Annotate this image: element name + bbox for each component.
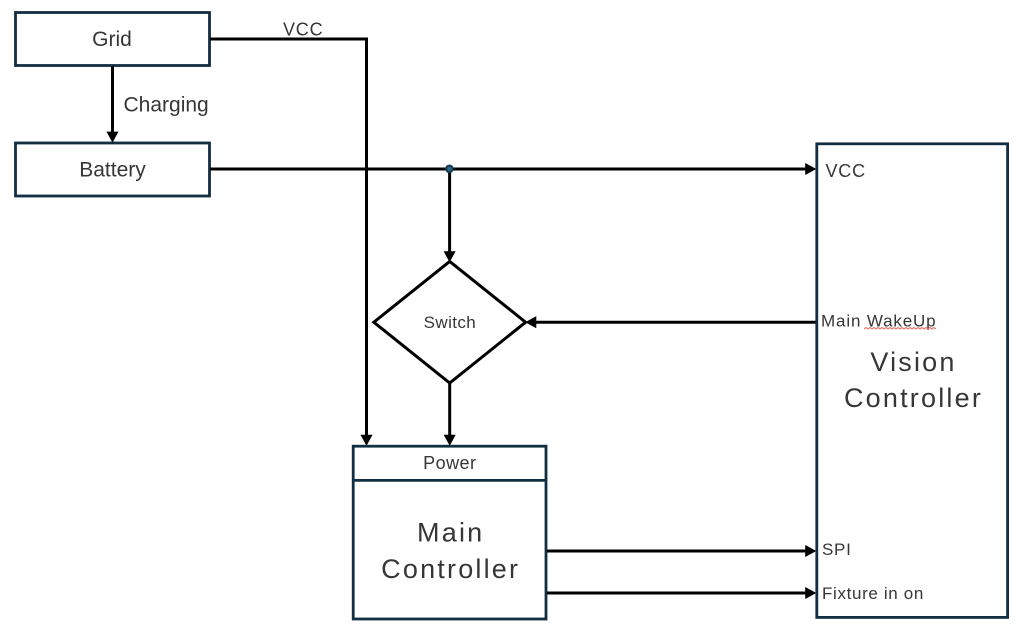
svg-text:VCC: VCC — [283, 19, 323, 39]
wire junction down to Switch — [444, 169, 454, 261]
box Main Controller — [353, 446, 546, 619]
svg-text:Switch: Switch — [424, 313, 476, 332]
svg-text:Battery: Battery — [79, 159, 146, 182]
svg-text:Controller: Controller — [381, 554, 520, 584]
svg-text:Power: Power — [423, 453, 476, 473]
svg-text:Grid: Grid — [92, 28, 132, 51]
box Grid — [16, 13, 210, 66]
switch diamond — [374, 261, 526, 383]
wire Fixture in on (Main Controller to Vision Controller) — [547, 588, 815, 598]
wire VCC (Grid right, over and down to Main Controller Power) — [210, 39, 372, 445]
wire Battery to Vision Controller VCC — [210, 164, 815, 174]
svg-text:Fixture in on: Fixture in on — [822, 584, 924, 603]
wire Main WakeUp (Vision Controller to Switch) — [526, 317, 815, 327]
svg-text:SPI: SPI — [822, 540, 852, 559]
spellcheck squiggle under WakeUp — [864, 327, 936, 329]
wire SPI (Main Controller to Vision Controller) — [547, 546, 815, 556]
svg-text:Controller: Controller — [844, 383, 983, 413]
wire Switch bottom to Main Controller Power — [445, 383, 455, 445]
wire Charging arrow (Grid to Battery) — [107, 66, 117, 142]
svg-text:Main: Main — [417, 517, 484, 547]
svg-text:VCC: VCC — [826, 161, 866, 181]
junction node — [445, 165, 454, 174]
box Vision Controller — [817, 144, 1008, 618]
box Battery — [16, 143, 210, 196]
svg-text:Vision: Vision — [870, 347, 956, 377]
svg-text:Charging: Charging — [124, 93, 209, 116]
